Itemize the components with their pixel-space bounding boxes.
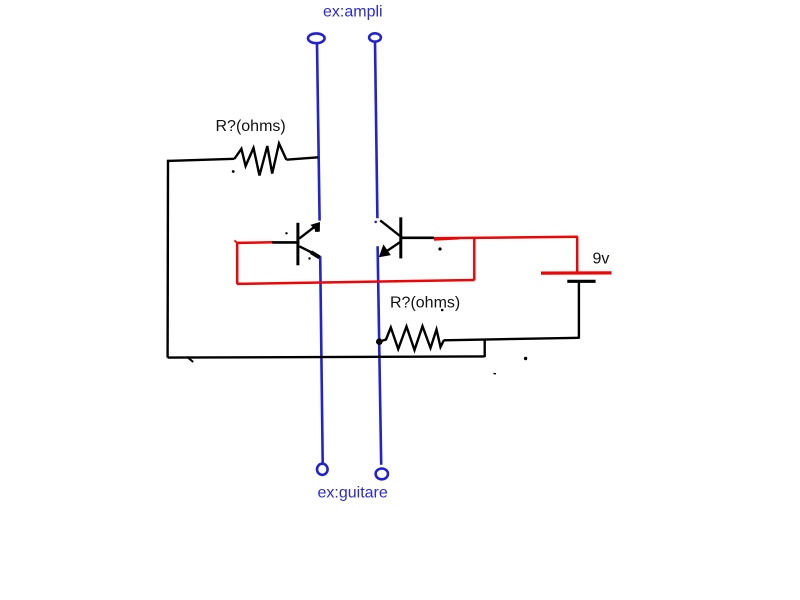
speckle dot 5	[524, 357, 527, 360]
wire red battery positive lead	[576, 237, 579, 273]
terminal J4 (guitare right)	[376, 469, 388, 480]
speckle dot 1	[232, 170, 235, 173]
wire R1 right lead	[286, 157, 318, 159]
wire red top horizontal	[434, 237, 578, 239]
speckle dot 7	[441, 309, 444, 312]
wire blue left lower	[320, 256, 323, 463]
wire red corner tick	[234, 240, 237, 243]
svg-text:ex:ampli: ex:ampli	[323, 4, 383, 21]
transistor Q2 emitter lead	[386, 241, 401, 251]
speckle dot 2	[285, 232, 287, 234]
wire red top overlap stroke	[434, 239, 459, 240]
wire red to Q1 base	[236, 241, 273, 244]
speckle dot 3	[308, 257, 310, 259]
transistor Q1 bar	[296, 223, 299, 265]
wire T junction vertical	[484, 339, 486, 357]
wire battery negative lead	[578, 283, 580, 339]
svg-text:ex:guitare: ex:guitare	[318, 485, 388, 502]
battery B1 negative plate	[567, 280, 595, 283]
transistor Q2 base lead	[401, 237, 434, 240]
wire blue left upper	[317, 43, 320, 220]
junction node dot	[376, 338, 383, 345]
battery B1 positive plate	[541, 271, 612, 274]
transistor Q2 collector lead	[380, 220, 400, 235]
wire blue right lower	[378, 246, 382, 465]
resistor R1	[234, 144, 286, 176]
wire red right vertical	[473, 238, 476, 280]
transistor Q1 base lead	[272, 241, 299, 244]
wire tick mark bottom left	[187, 357, 193, 362]
transistor Q2 emitter arrowhead	[379, 244, 391, 257]
wire red bottom horizontal	[237, 280, 474, 284]
terminal J2 (ampli right)	[369, 33, 381, 41]
svg-text:R?(ohms): R?(ohms)	[390, 295, 460, 312]
svg-text:9v: 9v	[593, 251, 610, 268]
wire red left vertical	[236, 243, 239, 285]
terminal J3 (guitare left)	[317, 464, 328, 475]
speckle dot 4	[438, 247, 441, 250]
transistor Q2 bar	[399, 217, 402, 258]
node speckle blue	[374, 221, 377, 224]
svg-text:R?(ohms): R?(ohms)	[216, 118, 286, 135]
speckle dash 6	[494, 373, 497, 375]
wire R1 left lead	[168, 159, 235, 161]
resistor R2	[379, 326, 444, 350]
wire blue right upper	[375, 42, 377, 219]
wire bottom horizontal	[168, 356, 485, 357]
wire left vertical	[166, 160, 169, 358]
transistor Q1 emitter lead	[299, 246, 313, 253]
wire mid horizontal to battery	[444, 338, 580, 341]
transistor Q1 collector arrowhead	[310, 222, 320, 232]
terminal J1 (ampli left)	[308, 33, 325, 43]
transistor Q1 emitter tip	[311, 252, 320, 257]
transistor Q1 collector lead	[299, 227, 314, 239]
